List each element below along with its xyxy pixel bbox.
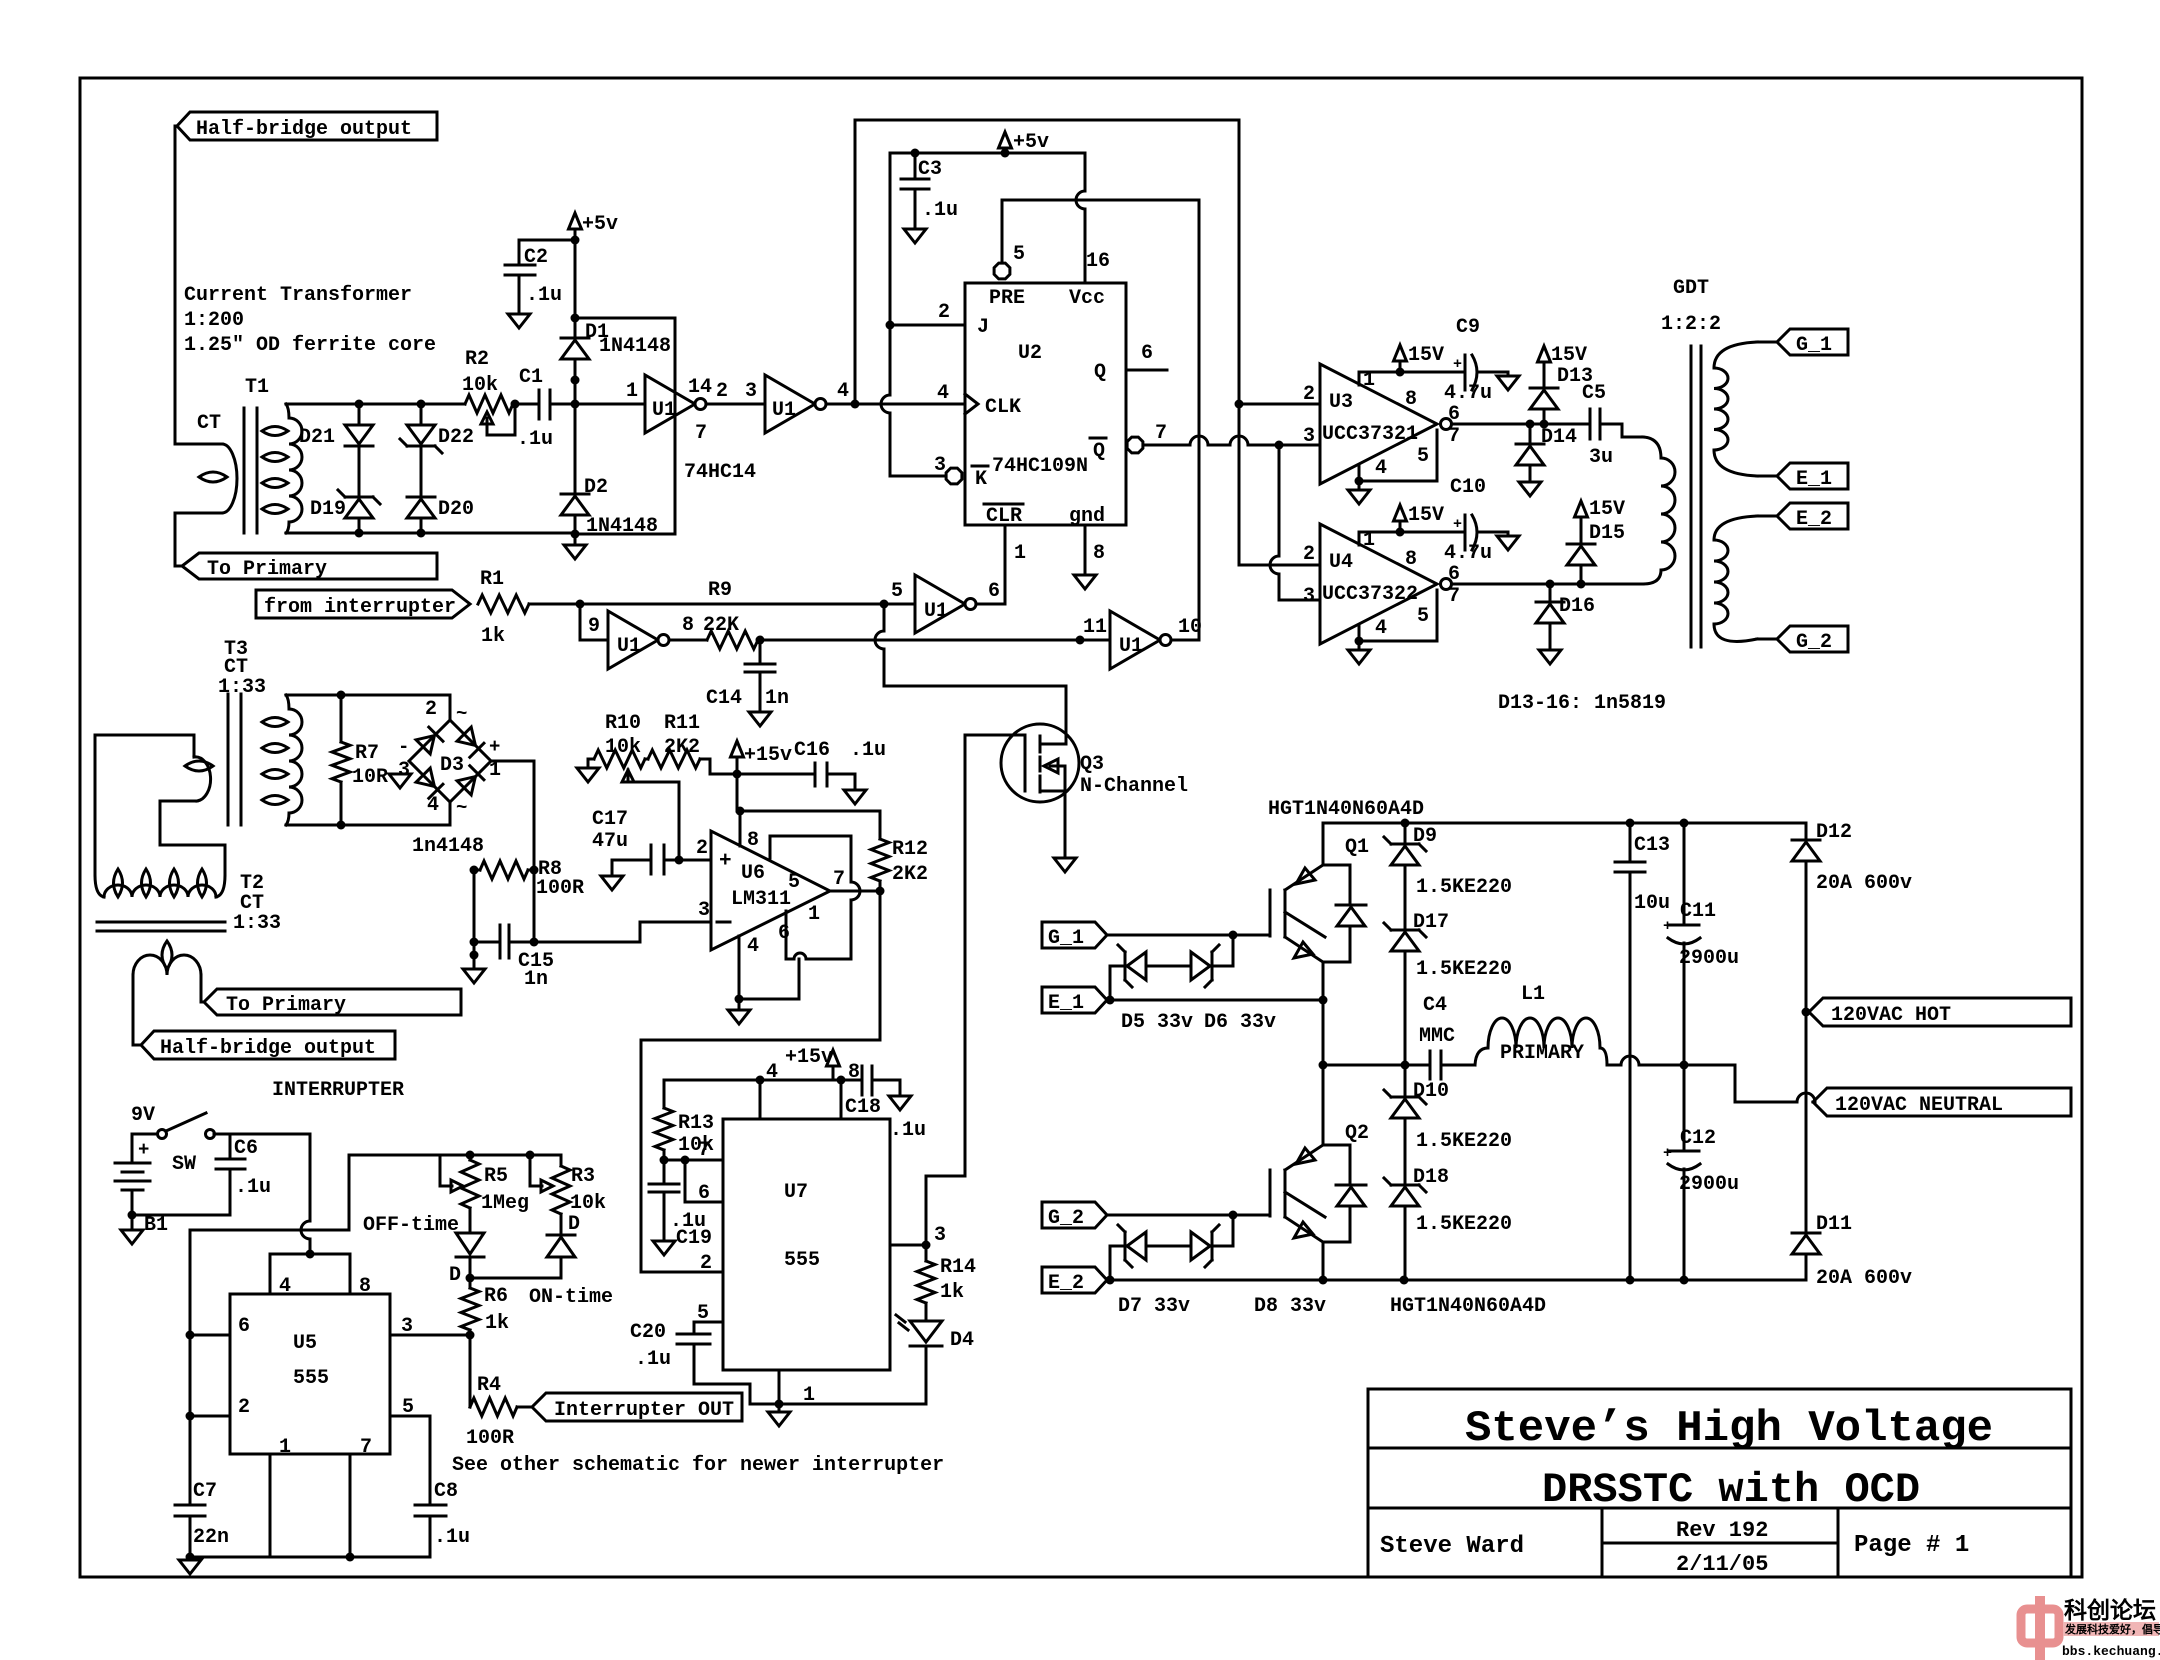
wire U3 output row [1452,423,1590,426]
U6 pin7 output [830,890,880,893]
svg-text:D16: D16 [1559,595,1595,618]
U7 555 box [723,1119,890,1370]
flag G_2 (GDT) [1777,626,1848,652]
svg-text:120VAC NEUTRAL: 120VAC NEUTRAL [1835,1094,2003,1117]
svg-text:G_2: G_2 [1048,1207,1084,1230]
svg-text:1k: 1k [481,625,505,648]
svg-text:U1: U1 [924,600,948,623]
D3 diode upper-right [457,727,475,745]
svg-text:8: 8 [1405,388,1417,411]
T1 secondary winding [286,404,289,418]
ground at C7 [189,1557,192,1560]
wire SW to C6 [214,1133,310,1136]
capacitor C18 .1u [861,1066,864,1095]
flag To Primary (bottom) [204,989,461,1015]
svg-text:Q2: Q2 [1345,1122,1369,1145]
T1 primary pickup CT loop [175,443,222,446]
svg-text:7: 7 [1448,425,1460,448]
svg-text:2900u: 2900u [1679,947,1739,970]
svg-text:1: 1 [626,380,638,403]
U6 balance pins 5/6/1 bracket [770,836,851,858]
svg-text:120VAC HOT: 120VAC HOT [1831,1004,1951,1027]
svg-text:1.5KE220: 1.5KE220 [1416,958,1512,981]
svg-text:16: 16 [1086,250,1110,273]
svg-text:T1: T1 [245,376,269,399]
flag 120VAC HOT [1809,998,2071,1026]
wire U5 left rail [190,1155,349,1505]
svg-text:100R: 100R [536,877,584,900]
svg-text:U2: U2 [1018,342,1042,365]
transistor Q3 N-Channel MOSFET [1001,724,1079,802]
flag Half-bridge output (top) [177,112,437,140]
wire R6 node down to R4 [469,1335,472,1407]
svg-text:D12: D12 [1816,821,1852,844]
svg-text:Half-bridge output: Half-bridge output [160,1037,376,1060]
U2 gnd pin 8 wire [1084,525,1087,575]
svg-text:3: 3 [745,380,757,403]
wire inverter6 out to CLR [976,603,1005,606]
U1 power box wire pins 14/7 [575,318,675,534]
svg-text:K: K [975,468,987,491]
svg-text:C14: C14 [706,687,742,710]
Q2 antiparallel diode [1323,1144,1350,1147]
diode D13 1n5819 to 15V [1543,409,1546,424]
svg-text:GDT: GDT [1673,277,1709,300]
svg-text:SW: SW [172,1153,196,1176]
comparator U6 LM311 [711,831,830,950]
resistor R4 100R [470,1398,517,1416]
svg-text:D20: D20 [438,498,474,521]
svg-text:R12: R12 [892,838,928,861]
svg-text:DRSSTC with OCD: DRSSTC with OCD [1542,1466,1920,1514]
svg-text:+: + [1453,516,1462,533]
svg-text:C8: C8 [434,1480,458,1503]
svg-text:INTERRUPTER: INTERRUPTER [272,1079,404,1102]
wire SW node down to U5 pins 4/8 [309,1134,312,1221]
wire mid rail to 120VAC NEUTRAL [1684,1065,1735,1102]
svg-text:22K: 22K [703,614,739,637]
resistor R13 10k [663,1080,666,1108]
svg-text:C18: C18 [845,1096,881,1119]
U7 pin7 wire [664,1159,723,1162]
svg-text:LM311: LM311 [731,888,791,911]
TVS D17 1.5KE220 [1391,929,1419,932]
zener D7 33v [1110,1246,1127,1280]
ground below D2 [564,545,586,559]
svg-text:10k: 10k [605,736,641,759]
U2 74HC109N box [965,283,1126,525]
power 15V arrow U3 [1394,345,1407,361]
svg-text:1k: 1k [940,1281,964,1304]
wire T2 secondary to T3 pickup [95,735,194,875]
resistor R12 2K2 [879,811,882,839]
svg-text:C2: C2 [524,246,548,269]
svg-text:R7: R7 [355,742,379,765]
svg-text:1k: 1k [485,1312,509,1335]
svg-text:R4: R4 [477,1374,501,1397]
svg-text:D: D [449,1264,461,1287]
svg-text:C16: C16 [794,739,830,762]
U6 pin8 stub [739,811,742,846]
svg-text:R10: R10 [605,712,641,735]
svg-text:2: 2 [700,1252,712,1275]
svg-text:See other schematic for newer: See other schematic for newer interrupte… [452,1454,944,1477]
U7 pin6 wire [685,1160,723,1202]
svg-text:E_2: E_2 [1048,1272,1084,1295]
capacitor C3 .1u [914,153,917,179]
flag 120VAC NEUTRAL [1813,1088,2071,1116]
power +5v arrow at D1 [569,213,582,229]
svg-text:D11: D11 [1816,1213,1852,1236]
svg-text:22n: 22n [193,1526,229,1549]
svg-text:U1: U1 [652,399,676,422]
svg-text:bbs.kechuang.org: bbs.kechuang.org [2062,1644,2160,1659]
wire gate A to gate B [706,403,765,406]
svg-text:D2: D2 [584,476,608,499]
diode D2 1N4148 [574,404,577,494]
svg-text:U1: U1 [617,635,641,658]
svg-text:D8 33v: D8 33v [1254,1295,1326,1318]
svg-text:1:33: 1:33 [233,912,281,935]
diode D21 [358,404,361,423]
capacitor C5 3u [1589,409,1592,439]
flag E_2 (bridge) [1042,1267,1107,1293]
wire D3 plus output down to R8 [491,761,534,870]
resistor R9 22K [669,639,707,642]
Q3 gate wire from U7 out [965,734,1025,737]
resistor R1 1k [478,595,529,613]
D3 diode lower-right [457,777,475,795]
svg-text:C7: C7 [193,1480,217,1503]
U5 pin6 wire [190,1334,230,1337]
svg-text:7: 7 [695,422,707,445]
svg-text:U1: U1 [1119,635,1143,658]
svg-text:5: 5 [697,1302,709,1325]
wire OCD pulldown from node 5 to Q3 [883,604,886,631]
svg-text:C3: C3 [918,158,942,181]
capacitor C16 .1u [814,763,817,786]
svg-text:74HC14: 74HC14 [684,461,756,484]
svg-text:Steve Ward: Steve Ward [1380,1533,1524,1560]
bridge rectifier D3 diamond [409,720,491,802]
inverter U1 gate A pins 1-2 [645,375,695,433]
svg-text:.1u: .1u [235,1176,271,1199]
capacitor C17 47u [650,845,653,874]
svg-text:7: 7 [1155,422,1167,445]
switch SW [132,1133,158,1136]
svg-text:2: 2 [716,380,728,403]
bottom rail E_2 [1107,1279,1806,1282]
flag G_2 (bridge) [1042,1202,1107,1228]
svg-text:C5: C5 [1582,382,1606,405]
svg-text:+5v: +5v [1013,131,1049,154]
svg-text:Q: Q [1093,440,1105,463]
wire C6 bottom to battery [132,1214,230,1217]
flag Interrupter OUT [532,1393,742,1421]
flag E_2 (GDT) [1777,503,1848,529]
svg-text:+: + [489,736,500,758]
LED D4 [910,1321,942,1342]
diode D20 [407,496,435,499]
U7 pin8 stub [840,1080,843,1119]
svg-text:4: 4 [766,1061,778,1084]
wire D2 to power box bottom [575,533,675,536]
flag G_1 (GDT) [1777,329,1848,355]
R2 wiper [487,404,515,435]
wire U7 out up to Q3 gate [926,735,965,1245]
feedback wire to U3/U4 input 2 [855,120,1239,404]
svg-text:E_2: E_2 [1796,508,1832,531]
svg-text:6: 6 [238,1315,250,1338]
svg-text:To Primary: To Primary [226,994,346,1017]
svg-text:9: 9 [588,615,600,638]
capacitor C4 MMC [1429,1051,1432,1079]
wire gate B output to U2 CLK [826,403,965,406]
svg-text:1N4148: 1N4148 [599,335,671,358]
svg-text:G_1: G_1 [1796,334,1832,357]
svg-text:C1: C1 [519,366,543,389]
TVS D18 1.5KE220 [1391,1184,1419,1187]
U2 CLK wedge [965,394,978,414]
svg-text:C17: C17 [592,808,628,831]
flag from interrupter [256,590,470,618]
svg-text:3: 3 [1303,585,1315,608]
wire C5 to GDT primary [1600,424,1643,437]
svg-text:11: 11 [1083,616,1107,639]
wire from Half-bridge output flag down to CT [175,126,177,444]
svg-text:15V: 15V [1589,498,1625,521]
U2 PRE pin 5 bubble and wire [994,263,1010,279]
U5 555 box [230,1294,390,1454]
Q1 antiparallel diode [1323,864,1350,867]
svg-text:UCC37321: UCC37321 [1322,423,1418,446]
inverter U1 gate pins 5-6 [915,575,965,633]
svg-text:R1: R1 [480,568,504,591]
svg-text:To Primary: To Primary [207,558,327,581]
U2 CLR pin 1 wire [1004,525,1007,604]
OFF/ON time rail [349,1154,561,1157]
svg-text:Steve’s High Voltage: Steve’s High Voltage [1465,1404,1993,1454]
svg-text:Rev 192: Rev 192 [1676,1518,1768,1543]
svg-text:G_2: G_2 [1796,631,1832,654]
svg-text:Interrupter OUT: Interrupter OUT [554,1399,734,1422]
rectifier D12 20A 600v [1805,823,1808,840]
GDT core [1690,346,1693,647]
svg-text:10k: 10k [462,374,498,397]
svg-text:R13: R13 [678,1112,714,1135]
wire +15v to pin8 and R12 [737,774,880,811]
svg-text:4.7u: 4.7u [1444,382,1492,405]
flag To Primary (top) [182,553,437,579]
svg-text:R9: R9 [708,579,732,602]
svg-text:8: 8 [848,1061,860,1084]
svg-text:8: 8 [359,1275,371,1298]
svg-text:7: 7 [698,1139,710,1162]
svg-text:Half-bridge output: Half-bridge output [196,118,412,141]
GDT secondary winding 1 [1714,342,1757,368]
svg-text:D5 33v: D5 33v [1121,1011,1193,1034]
top DC rail [1323,822,1806,825]
TVS D9 1.5KE220 [1404,823,1407,844]
wire diodes to R6 node [470,1277,561,1280]
svg-text:R2: R2 [465,348,489,371]
svg-text:D22: D22 [438,426,474,449]
U3 15V rail pin1/8 [1358,372,1361,385]
svg-text:10k: 10k [570,1192,606,1215]
capacitor C8 .1u [415,1504,446,1507]
wire R8 left down to C15 and ground [473,870,476,969]
wire T3 bottom to bridge [286,824,450,827]
zener D8 33v [1148,1245,1191,1248]
svg-text:CT: CT [197,412,221,435]
capacitor C7 22n [175,1504,205,1507]
wire Qbar node down to U4 pin3 with hop [1278,445,1281,556]
G_1 wire to Q1 gate [1107,934,1270,937]
svg-text:8: 8 [1405,548,1417,571]
power 15V arrow U4 [1394,505,1407,521]
svg-text:4: 4 [837,380,849,403]
svg-text:U4: U4 [1329,551,1353,574]
wire C15 to LM311 pin3 [509,941,534,944]
svg-text:+: + [138,1139,149,1161]
title block [1368,1389,2071,1577]
R3 wiper [530,1155,542,1186]
watermark kechuang logo [2021,1596,2160,1660]
svg-text:1Meg: 1Meg [481,1192,529,1215]
svg-text:+: + [1453,356,1462,373]
svg-text:1: 1 [1014,542,1026,565]
svg-text:1: 1 [808,903,820,926]
Q2 collector wire [1322,1065,1325,1145]
svg-text:Q1: Q1 [1345,836,1369,859]
wire top feedback to U3 pin2 [1239,403,1319,406]
diode D22 zener [420,404,423,423]
svg-text:PRE: PRE [989,287,1025,310]
svg-text:.1u: .1u [850,739,886,762]
svg-text:6: 6 [988,580,1000,603]
svg-text:+15v: +15v [785,1046,833,1069]
Q2 emitter wire [1322,1242,1325,1280]
svg-text:D15: D15 [1589,522,1625,545]
svg-text:Vcc: Vcc [1069,287,1105,310]
power +5v arrow at U2 [999,132,1012,148]
svg-text:C19: C19 [676,1227,712,1250]
rectifier D11 20A 600v [1805,1012,1808,1233]
ground at R10 left [588,759,594,768]
svg-text:D6 33v: D6 33v [1204,1011,1276,1034]
capacitor C9 4.7u [1464,355,1467,390]
flag G_1 (bridge) [1042,922,1107,948]
power +15v arrow LM311 [731,741,744,757]
svg-text:B1: B1 [144,1214,168,1237]
wire LM311 out to U7 trigger [641,891,880,1272]
svg-text:C11: C11 [1680,900,1716,923]
flag E_1 (GDT) [1777,463,1848,489]
diode D19 zener [345,496,373,499]
svg-text:1: 1 [279,1436,291,1459]
resistor R7 10R [332,742,350,782]
U7 pin3 output wire [890,1244,926,1247]
svg-text:20A 600v: 20A 600v [1816,872,1912,895]
D3 diode upper-left [416,736,434,754]
svg-text:3u: 3u [1589,446,1613,469]
ground at D3 minus corner [389,774,411,788]
U2 J input pin 2 wire [890,324,965,327]
svg-text:7: 7 [1448,585,1460,608]
U2 Q pin 6 stub [1126,369,1167,372]
svg-text:HGT1N40N60A4D: HGT1N40N60A4D [1390,1295,1546,1318]
svg-text:7: 7 [833,868,845,891]
svg-text:1.5KE220: 1.5KE220 [1416,1213,1512,1236]
resistor R2 10k trimmer [465,395,513,413]
diode at R5 [469,1208,472,1233]
U7 +15v rail [664,1079,862,1082]
U6 pin4 ground [738,936,741,1010]
svg-text:.1u: .1u [517,428,553,451]
PRE wire from inverter pin10 [1002,199,1199,202]
svg-text:D9: D9 [1413,825,1437,848]
svg-text:.1u: .1u [890,1119,926,1142]
svg-text:E_1: E_1 [1048,992,1084,1015]
svg-text:科创论坛: 科创论坛 [2064,1597,2156,1625]
svg-text:UCC37322: UCC37322 [1322,583,1418,606]
flag E_1 (bridge) [1042,987,1107,1013]
svg-text:555: 555 [293,1367,329,1390]
wire D8 to G_2 [1212,1215,1233,1246]
svg-text:2: 2 [1303,383,1315,406]
svg-text:+: + [719,850,732,873]
capacitor C20 .1u [677,1333,710,1336]
diode at R3 [560,1214,563,1235]
svg-text:L1: L1 [1521,983,1545,1006]
svg-text:C12: C12 [1680,1127,1716,1150]
svg-text:R14: R14 [940,1256,976,1279]
svg-text:+: + [1663,1145,1672,1162]
svg-text:D4: D4 [950,1329,974,1352]
mid rail bridge output [1323,1064,1405,1067]
resistor R10 10k trimmer [594,750,645,768]
resistor R8 100R [480,861,528,879]
svg-text:10u: 10u [1634,892,1670,915]
svg-text:7: 7 [360,1436,372,1459]
Q1 emitter wire to mid rail [1322,962,1325,1065]
svg-text:14: 14 [688,376,712,399]
svg-text:20A 600v: 20A 600v [1816,1267,1912,1290]
svg-text:3: 3 [1303,425,1315,448]
TVS D10 1.5KE220 [1404,1065,1407,1097]
svg-text:4: 4 [427,794,439,817]
svg-text:C20: C20 [630,1321,666,1344]
capacitor C1 .1u [538,390,541,419]
Q3 source to ground [1064,766,1067,791]
svg-text:2: 2 [938,301,950,324]
U7 pin1 ground [778,1370,781,1404]
svg-text:1n: 1n [524,968,548,991]
capacitor C11 2900u electrolytic [1683,823,1686,925]
T2 core [97,921,225,924]
T3 primary pickup loop [194,757,211,801]
svg-text:D10: D10 [1413,1080,1449,1103]
svg-text:2900u: 2900u [1679,1173,1739,1196]
resistor R6 1k [469,1278,472,1288]
svg-text:2: 2 [1303,543,1315,566]
svg-text:5: 5 [788,871,800,894]
svg-text:+5v: +5v [582,213,618,236]
bottom rail U5 [190,1556,430,1559]
svg-text:.1u: .1u [526,284,562,307]
svg-text:.1u: .1u [434,1526,470,1549]
wire T2 pickup to Half-bridge output flag [133,975,141,1045]
